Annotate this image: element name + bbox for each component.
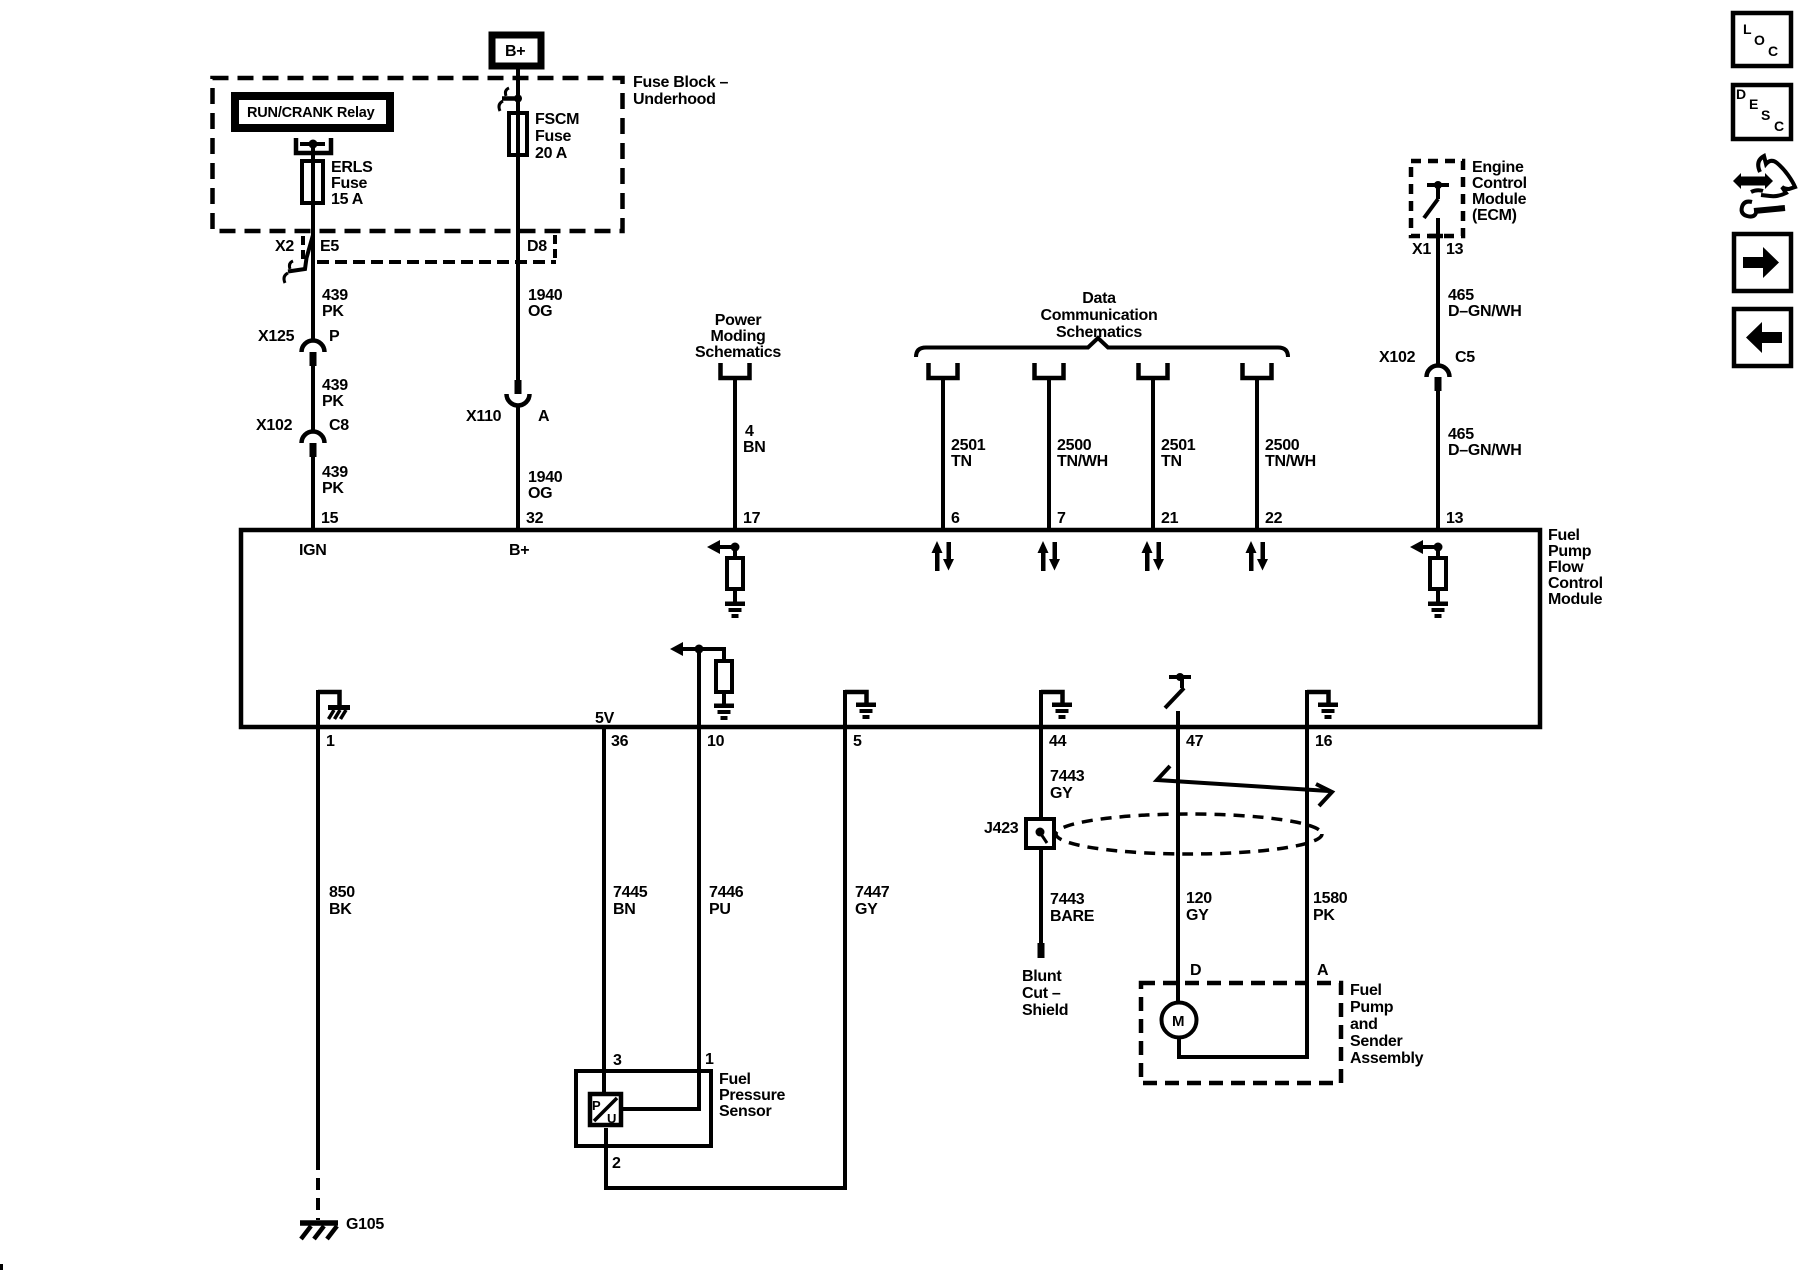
wire label 7443 BARE: [1050, 891, 1095, 925]
svg-text:Assembly: Assembly: [1350, 1050, 1424, 1067]
svg-text:E5: E5: [320, 238, 339, 255]
svg-text:Fuel: Fuel: [1350, 982, 1382, 999]
pin 22 bidirectional arrows: [1246, 541, 1269, 571]
svg-text:Fuse Block –: Fuse Block –: [633, 74, 729, 91]
relay terminal clip: [296, 138, 331, 153]
svg-text:4: 4: [745, 423, 754, 440]
svg-text:Pump: Pump: [1548, 543, 1592, 560]
svg-text:2501: 2501: [1161, 437, 1196, 454]
ECM label: [1472, 159, 1527, 224]
fuse block underhood dashed box: [213, 78, 623, 231]
wire 7446 PU (pin 10 to sensor pin 1): [622, 649, 699, 1109]
wire 2501 TN (pin 21): [1151, 378, 1155, 530]
wire label 7443 GY: [1050, 768, 1085, 802]
svg-text:C: C: [1774, 118, 1784, 134]
icon wrench and arrows: [1733, 156, 1795, 217]
svg-text:2500: 2500: [1057, 437, 1092, 454]
svg-text:439: 439: [322, 464, 348, 481]
svg-text:20 A: 20 A: [535, 145, 568, 162]
ECM dashed box: [1411, 161, 1463, 236]
wire 7443 GY (pin 44 to J423): [1039, 727, 1043, 820]
svg-text:Sensor: Sensor: [719, 1103, 772, 1120]
svg-text:M: M: [1172, 1013, 1185, 1030]
svg-text:X102: X102: [1379, 349, 1416, 366]
pin 17 internal resistor: [727, 547, 743, 602]
pin 7 bidirectional arrows: [1038, 541, 1061, 571]
svg-text:7445: 7445: [613, 884, 648, 901]
svg-text:Engine: Engine: [1472, 159, 1524, 176]
svg-text:TN/WH: TN/WH: [1057, 453, 1108, 470]
pin 5 internal ground: [845, 690, 876, 727]
inline connector X125 P: [258, 328, 340, 366]
inline connector X110 A: [466, 380, 550, 425]
fuse FSCM 20 A: [509, 111, 579, 162]
wire label 439 PK (middle): [322, 377, 348, 410]
svg-text:439: 439: [322, 287, 348, 304]
fuse ERLS 15 A: [302, 159, 373, 208]
svg-text:Pump: Pump: [1350, 999, 1394, 1016]
svg-text:X102: X102: [256, 417, 293, 434]
svg-text:B+: B+: [509, 542, 529, 559]
wire label 2500 TN/WH: [1057, 437, 1108, 470]
svg-text:C8: C8: [329, 417, 349, 434]
ground G105: [300, 1216, 384, 1239]
fuel pump and sender assembly dashed box: [1141, 983, 1341, 1083]
svg-text:Control: Control: [1548, 575, 1603, 592]
svg-text:Pressure: Pressure: [719, 1087, 785, 1104]
svg-text:7443: 7443: [1050, 768, 1085, 785]
svg-text:1: 1: [326, 733, 335, 750]
wire label 465 D-GN/WH (lower): [1448, 426, 1521, 459]
svg-text:Data: Data: [1082, 290, 1116, 307]
svg-text:FSCM: FSCM: [535, 111, 579, 128]
svg-text:17: 17: [743, 510, 761, 527]
fuel pressure sensor box: [576, 1071, 711, 1146]
svg-text:2500: 2500: [1265, 437, 1300, 454]
svg-text:Shield: Shield: [1022, 1002, 1068, 1019]
svg-text:RUN/CRANK Relay: RUN/CRANK Relay: [247, 105, 375, 121]
svg-text:X125: X125: [258, 328, 295, 345]
svg-text:15 A: 15 A: [331, 191, 364, 208]
svg-text:TN: TN: [951, 453, 972, 470]
fuse block label: [633, 74, 729, 108]
svg-text:Sender: Sender: [1350, 1033, 1403, 1050]
pin 10 internal resistor leg: [699, 649, 732, 704]
wire 439 PK (relay through ERLS fuse to X125): [311, 144, 315, 341]
pin 13 internal arrow: [1410, 540, 1438, 554]
svg-text:C5: C5: [1455, 349, 1475, 366]
off-page connector Power Moding: [721, 363, 750, 378]
blunt cut terminator: [1038, 943, 1045, 958]
svg-text:PK: PK: [322, 393, 344, 410]
svg-text:BK: BK: [329, 901, 352, 918]
wire label 850 BK: [329, 884, 355, 918]
svg-text:PK: PK: [322, 303, 344, 320]
wire 465 (ECM to C5): [1436, 218, 1440, 366]
svg-text:Moding: Moding: [710, 328, 765, 345]
wire label 7445 BN: [613, 884, 648, 918]
svg-text:J423: J423: [984, 820, 1019, 837]
connector J423: [1026, 819, 1054, 848]
wire 7445 BN (pin 36 to sensor pin 3): [602, 727, 606, 1093]
svg-text:Blunt: Blunt: [1022, 968, 1062, 985]
wire label 465 D-GN/WH (upper): [1448, 287, 1521, 320]
svg-text:15: 15: [321, 510, 339, 527]
svg-text:A: A: [538, 408, 550, 425]
wire label 439 PK (lower): [322, 464, 348, 497]
off-page connector data wire 2: [1035, 363, 1064, 378]
wire label 2501 TN: [951, 437, 986, 470]
pin 13 internal ground: [1428, 602, 1448, 619]
splice hook at B+: [499, 88, 522, 111]
svg-text:OG: OG: [528, 485, 552, 502]
pin 16 internal ground: [1307, 690, 1338, 727]
svg-text:2: 2: [612, 1155, 621, 1172]
pin 10 internal arrow: [670, 642, 699, 656]
off-page connector data wire 1: [929, 363, 958, 378]
inline connector X102 C5: [1379, 349, 1475, 391]
off-page connector data wire 4: [1243, 363, 1272, 378]
svg-text:Fuse: Fuse: [331, 175, 368, 192]
brace under data communication label: [916, 338, 1288, 357]
svg-text:P: P: [329, 328, 340, 345]
svg-text:16: 16: [1315, 733, 1333, 750]
pin 13 internal junction: [1434, 543, 1443, 552]
off-page connector data wire 3: [1139, 363, 1168, 378]
svg-text:X110: X110: [466, 408, 502, 425]
svg-text:BN: BN: [743, 439, 766, 456]
svg-text:B+: B+: [505, 43, 525, 60]
svg-text:1580: 1580: [1313, 890, 1348, 907]
ECM internal driver switch: [1424, 181, 1449, 218]
power terminal B+: [492, 35, 541, 66]
label Power Moding Schematics: [695, 312, 781, 361]
svg-text:Fuel: Fuel: [1548, 527, 1580, 544]
svg-text:U: U: [607, 1111, 616, 1126]
svg-text:D: D: [1736, 86, 1746, 102]
wire 1940 OG (B+ terminal down to X110): [516, 66, 520, 380]
svg-text:and: and: [1350, 1016, 1378, 1033]
svg-text:X2: X2: [275, 238, 294, 255]
svg-text:TN/WH: TN/WH: [1265, 453, 1316, 470]
wire label 7447 GY: [855, 884, 890, 918]
svg-text:6: 6: [951, 510, 960, 527]
inline connector X102 C8: [256, 417, 349, 457]
pin 17 internal ground: [725, 602, 745, 619]
svg-text:Underhood: Underhood: [633, 91, 716, 108]
wire 439 PK (C8 to module pin 15): [311, 457, 315, 530]
svg-text:1940: 1940: [528, 469, 563, 486]
wire label 4 BN: [743, 423, 766, 456]
shield dashed ellipse: [1056, 814, 1322, 854]
svg-text:13: 13: [1446, 241, 1464, 258]
pin 10 internal junction: [695, 645, 704, 654]
wire 1580 PK (pin 16 to fuel pump): [1179, 727, 1307, 1057]
pin 17 internal arrow: [707, 540, 735, 554]
icon DESC box: [1733, 85, 1791, 139]
svg-text:BARE: BARE: [1050, 908, 1095, 925]
pin 6 bidirectional arrows: [932, 541, 955, 571]
svg-text:X1: X1: [1412, 241, 1431, 258]
svg-text:32: 32: [526, 510, 544, 527]
svg-text:G105: G105: [346, 1216, 384, 1233]
svg-text:1940: 1940: [528, 287, 563, 304]
svg-text:TN: TN: [1161, 453, 1182, 470]
svg-text:22: 22: [1265, 510, 1283, 527]
ECM pin pass-through tick: [1429, 234, 1443, 239]
svg-text:Power: Power: [715, 312, 762, 329]
wire label 1940 OG (upper): [528, 287, 563, 320]
connector separator dash X2: [301, 236, 305, 260]
wire 120 GY (pin 47 to fuel pump motor): [1176, 727, 1180, 1003]
svg-text:C: C: [1768, 43, 1778, 59]
svg-text:Schematics: Schematics: [695, 344, 781, 361]
pin 44 internal ground: [1041, 690, 1072, 727]
twisted pair marker: [1157, 766, 1332, 806]
svg-text:7: 7: [1057, 510, 1066, 527]
pin 1 internal chassis ground: [318, 690, 350, 727]
svg-text:(ECM): (ECM): [1472, 207, 1517, 224]
wire label 2501 TN (21): [1161, 437, 1196, 470]
wire label 120 GY: [1186, 890, 1212, 924]
svg-text:44: 44: [1049, 733, 1067, 750]
relay RUN/CRANK: [235, 96, 390, 128]
pin 21 bidirectional arrows: [1142, 541, 1165, 571]
svg-text:2501: 2501: [951, 437, 986, 454]
wire label 439 PK (upper): [322, 287, 348, 320]
splice hook at X2: [284, 235, 313, 283]
svg-text:PU: PU: [709, 901, 731, 918]
wire 1940 OG (X110 to module pin 32): [516, 405, 520, 530]
pin 10 internal ground: [714, 704, 734, 721]
svg-text:7447: 7447: [855, 884, 890, 901]
wire label 1940 OG (lower): [528, 469, 563, 502]
wire label 2500 TN/WH (22): [1265, 437, 1316, 470]
module box Fuel Pump Flow Control Module: [241, 530, 1540, 727]
label Fuel Pump and Sender Assembly: [1350, 982, 1424, 1067]
svg-text:Fuse: Fuse: [535, 128, 572, 145]
svg-text:D: D: [1190, 962, 1201, 979]
svg-text:Control: Control: [1472, 175, 1527, 192]
wire 7443 BARE (J423 to blunt cut): [1039, 848, 1043, 943]
svg-text:120: 120: [1186, 890, 1212, 907]
svg-text:47: 47: [1186, 733, 1204, 750]
svg-text:GY: GY: [1050, 785, 1073, 802]
module label: [1548, 527, 1603, 608]
svg-text:D–GN/WH: D–GN/WH: [1448, 303, 1521, 320]
wire label 7446 PU: [709, 884, 744, 918]
svg-text:36: 36: [611, 733, 629, 750]
svg-text:IGN: IGN: [299, 542, 327, 559]
icon forward arrow box: [1734, 234, 1791, 291]
svg-text:7446: 7446: [709, 884, 744, 901]
svg-text:3: 3: [613, 1052, 622, 1069]
svg-text:Module: Module: [1472, 191, 1527, 208]
svg-text:5V: 5V: [595, 710, 615, 727]
svg-text:Cut –: Cut –: [1022, 985, 1061, 1002]
svg-text:PK: PK: [322, 480, 344, 497]
page corner mark: [0, 1264, 3, 1270]
svg-text:D–GN/WH: D–GN/WH: [1448, 442, 1521, 459]
wire label 1580 PK: [1313, 890, 1348, 924]
svg-text:S: S: [1761, 107, 1770, 123]
wire 850 BK (pin 1 to G105): [316, 727, 320, 1158]
fuel pressure sensor P/U transducer: [590, 1094, 621, 1126]
svg-text:13: 13: [1446, 510, 1464, 527]
pin 17 internal terminator: junction: [731, 543, 740, 552]
fuse block connector face dashed line: [317, 260, 556, 264]
svg-text:21: 21: [1161, 510, 1179, 527]
pin 13 internal resistor: [1430, 547, 1446, 602]
wire 2501 TN (pin 6): [941, 378, 945, 530]
svg-text:465: 465: [1448, 287, 1474, 304]
connector separator dash D8: [553, 235, 557, 259]
wire 2500 TN/WH (pin 7): [1047, 378, 1051, 530]
pin 47 internal driver switch: [1165, 673, 1191, 727]
wire 465 (C5 to module pin 13): [1436, 391, 1440, 530]
svg-text:Flow: Flow: [1548, 559, 1584, 576]
label Data Communication Schematics: [1041, 290, 1158, 341]
svg-text:Module: Module: [1548, 591, 1603, 608]
icon LOC box: [1733, 13, 1791, 66]
fuel pressure sensor label: [719, 1071, 785, 1120]
svg-text:439: 439: [322, 377, 348, 394]
wire 2500 TN/WH (pin 22): [1255, 378, 1259, 530]
svg-text:PK: PK: [1313, 907, 1335, 924]
svg-text:E: E: [1749, 96, 1758, 112]
fuel pump motor M: [1162, 1003, 1197, 1038]
svg-text:850: 850: [329, 884, 355, 901]
svg-text:D8: D8: [527, 238, 547, 255]
svg-text:GY: GY: [855, 901, 878, 918]
svg-text:A: A: [1317, 962, 1329, 979]
dashed wire to G105: [316, 1158, 320, 1220]
svg-text:GY: GY: [1186, 907, 1209, 924]
svg-text:OG: OG: [528, 303, 552, 320]
svg-text:L: L: [1743, 21, 1752, 37]
svg-text:ERLS: ERLS: [331, 159, 373, 176]
svg-text:Fuel: Fuel: [719, 1071, 751, 1088]
wire 7447 GY (pin 5 to sensor pin 2): [606, 727, 845, 1188]
svg-text:7443: 7443: [1050, 891, 1085, 908]
svg-text:5: 5: [853, 733, 862, 750]
svg-text:1: 1: [705, 1051, 714, 1068]
svg-text:O: O: [1754, 32, 1765, 48]
svg-text:P: P: [592, 1098, 601, 1113]
label Blunt Cut Shield: [1022, 968, 1068, 1019]
svg-text:Communication: Communication: [1041, 307, 1158, 324]
svg-text:465: 465: [1448, 426, 1474, 443]
wire 439 PK (X125 to X102): [311, 366, 315, 432]
svg-text:10: 10: [707, 733, 725, 750]
svg-text:BN: BN: [613, 901, 636, 918]
icon back arrow box: [1734, 309, 1791, 366]
wire 4 BN: [733, 378, 737, 530]
